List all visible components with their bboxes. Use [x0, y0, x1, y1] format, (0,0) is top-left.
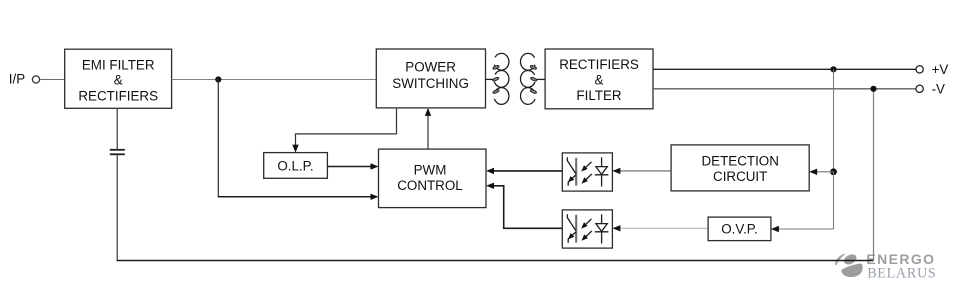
svg-text:&: &: [114, 73, 123, 88]
light arrow 1: [583, 219, 591, 227]
wire to OVP with arrow: [771, 226, 834, 232]
node dot on +V: [830, 66, 836, 72]
+V terminal circle: [916, 66, 923, 73]
wire input to EMI: [40, 79, 65, 81]
light arrow 2: [584, 174, 592, 182]
light arrow 1: [583, 162, 591, 170]
POWER SWITCHING box: [376, 49, 485, 108]
svg-text:-V: -V: [932, 81, 945, 96]
svg-text:CONTROL: CONTROL: [397, 178, 462, 193]
svg-text:RECTIFIERS: RECTIFIERS: [559, 57, 639, 72]
O.L.P. box: [264, 153, 328, 179]
wire EMI to POWER SWITCHING: [172, 79, 377, 81]
LED cathode bar: [595, 231, 609, 233]
LED triangle: [596, 167, 607, 175]
collector lead: [567, 157, 576, 173]
swoosh icon upper blob: [842, 252, 858, 266]
watermark logo ENERGO BELARUS: [835, 251, 937, 281]
svg-text:+V: +V: [932, 62, 949, 77]
input terminal circle: [32, 76, 39, 83]
LED cathode bar: [595, 174, 609, 176]
phototransistor base bar: [575, 158, 577, 186]
O.V.P. box: [708, 217, 771, 241]
wire junction to PWM with arrow: [218, 194, 379, 200]
LED anode lead: [601, 157, 603, 166]
bottom rail wire: [117, 260, 874, 262]
DETECTION CIRCUIT box: [671, 145, 809, 191]
swoosh icon crescent: [835, 254, 846, 266]
svg-text:POWER: POWER: [405, 59, 456, 74]
svg-text:CIRCUIT: CIRCUIT: [713, 169, 767, 184]
node junction dot: [215, 76, 221, 82]
wire EMI bottom to capacitor: [116, 108, 118, 149]
svg-text:SWITCHING: SWITCHING: [392, 76, 469, 91]
wire DETECTION to opto1 with arrow: [612, 168, 671, 174]
svg-text:O.L.P.: O.L.P.: [277, 158, 313, 173]
feedback: PS bottom to OLP top: [292, 108, 396, 153]
LED cathode lead: [601, 175, 603, 187]
collector lead: [567, 214, 576, 230]
wire +V node down to detection node: [833, 69, 835, 172]
svg-text:O.V.P.: O.V.P.: [721, 222, 757, 237]
RECTIFIERS & FILTER box: [545, 49, 653, 109]
transformer T1 secondary winding: [521, 53, 546, 104]
svg-text:FILTER: FILTER: [576, 88, 621, 103]
wire node to DETECTION with arrow: [809, 169, 833, 175]
LED cathode lead: [601, 232, 603, 244]
EMI FILTER & RECTIFIERS box: [65, 49, 172, 108]
wire OVP to opto2 with arrow: [612, 225, 708, 231]
node dot on -V: [870, 86, 876, 92]
svg-text:&: &: [595, 73, 604, 88]
feedback: PWM top to PS bottom with arrow: [425, 108, 431, 149]
svg-text:PWM: PWM: [414, 163, 447, 178]
wire capacitor down to bottom rail: [116, 155, 118, 261]
svg-text:I/P: I/P: [9, 71, 25, 86]
wire node down to OVP level: [833, 172, 835, 229]
light arrow 2: [584, 231, 592, 239]
optocoupler U1: [562, 153, 612, 191]
optocoupler U2: [562, 210, 612, 248]
wire junction down: [217, 80, 219, 197]
right vertical wire to -V: [873, 89, 875, 261]
+V rail wire: [653, 68, 916, 70]
LED triangle: [596, 224, 607, 232]
transformer T1 primary winding: [486, 53, 509, 104]
wire opto1 to PWM with arrow: [486, 168, 562, 174]
emitter lead with arrow: [568, 232, 576, 243]
PWM CONTROL box: [379, 149, 487, 208]
node dot at detection branch: [830, 168, 837, 175]
phototransistor base bar: [575, 215, 577, 243]
capacitor C1: [110, 150, 125, 155]
wire opto2 to PWM with arrow: [486, 183, 562, 229]
swoosh icon lower blob: [841, 264, 862, 277]
-V terminal circle: [916, 85, 923, 92]
svg-text:BELARUS: BELARUS: [867, 265, 936, 281]
svg-text:EMI FILTER: EMI FILTER: [82, 57, 155, 72]
LED anode lead: [601, 214, 603, 223]
-V rail wire: [653, 88, 916, 90]
wire OLP to PWM with arrow: [327, 163, 378, 169]
svg-text:DETECTION: DETECTION: [702, 154, 779, 169]
emitter lead with arrow: [568, 175, 576, 186]
svg-text:RECTIFIERS: RECTIFIERS: [78, 88, 158, 103]
